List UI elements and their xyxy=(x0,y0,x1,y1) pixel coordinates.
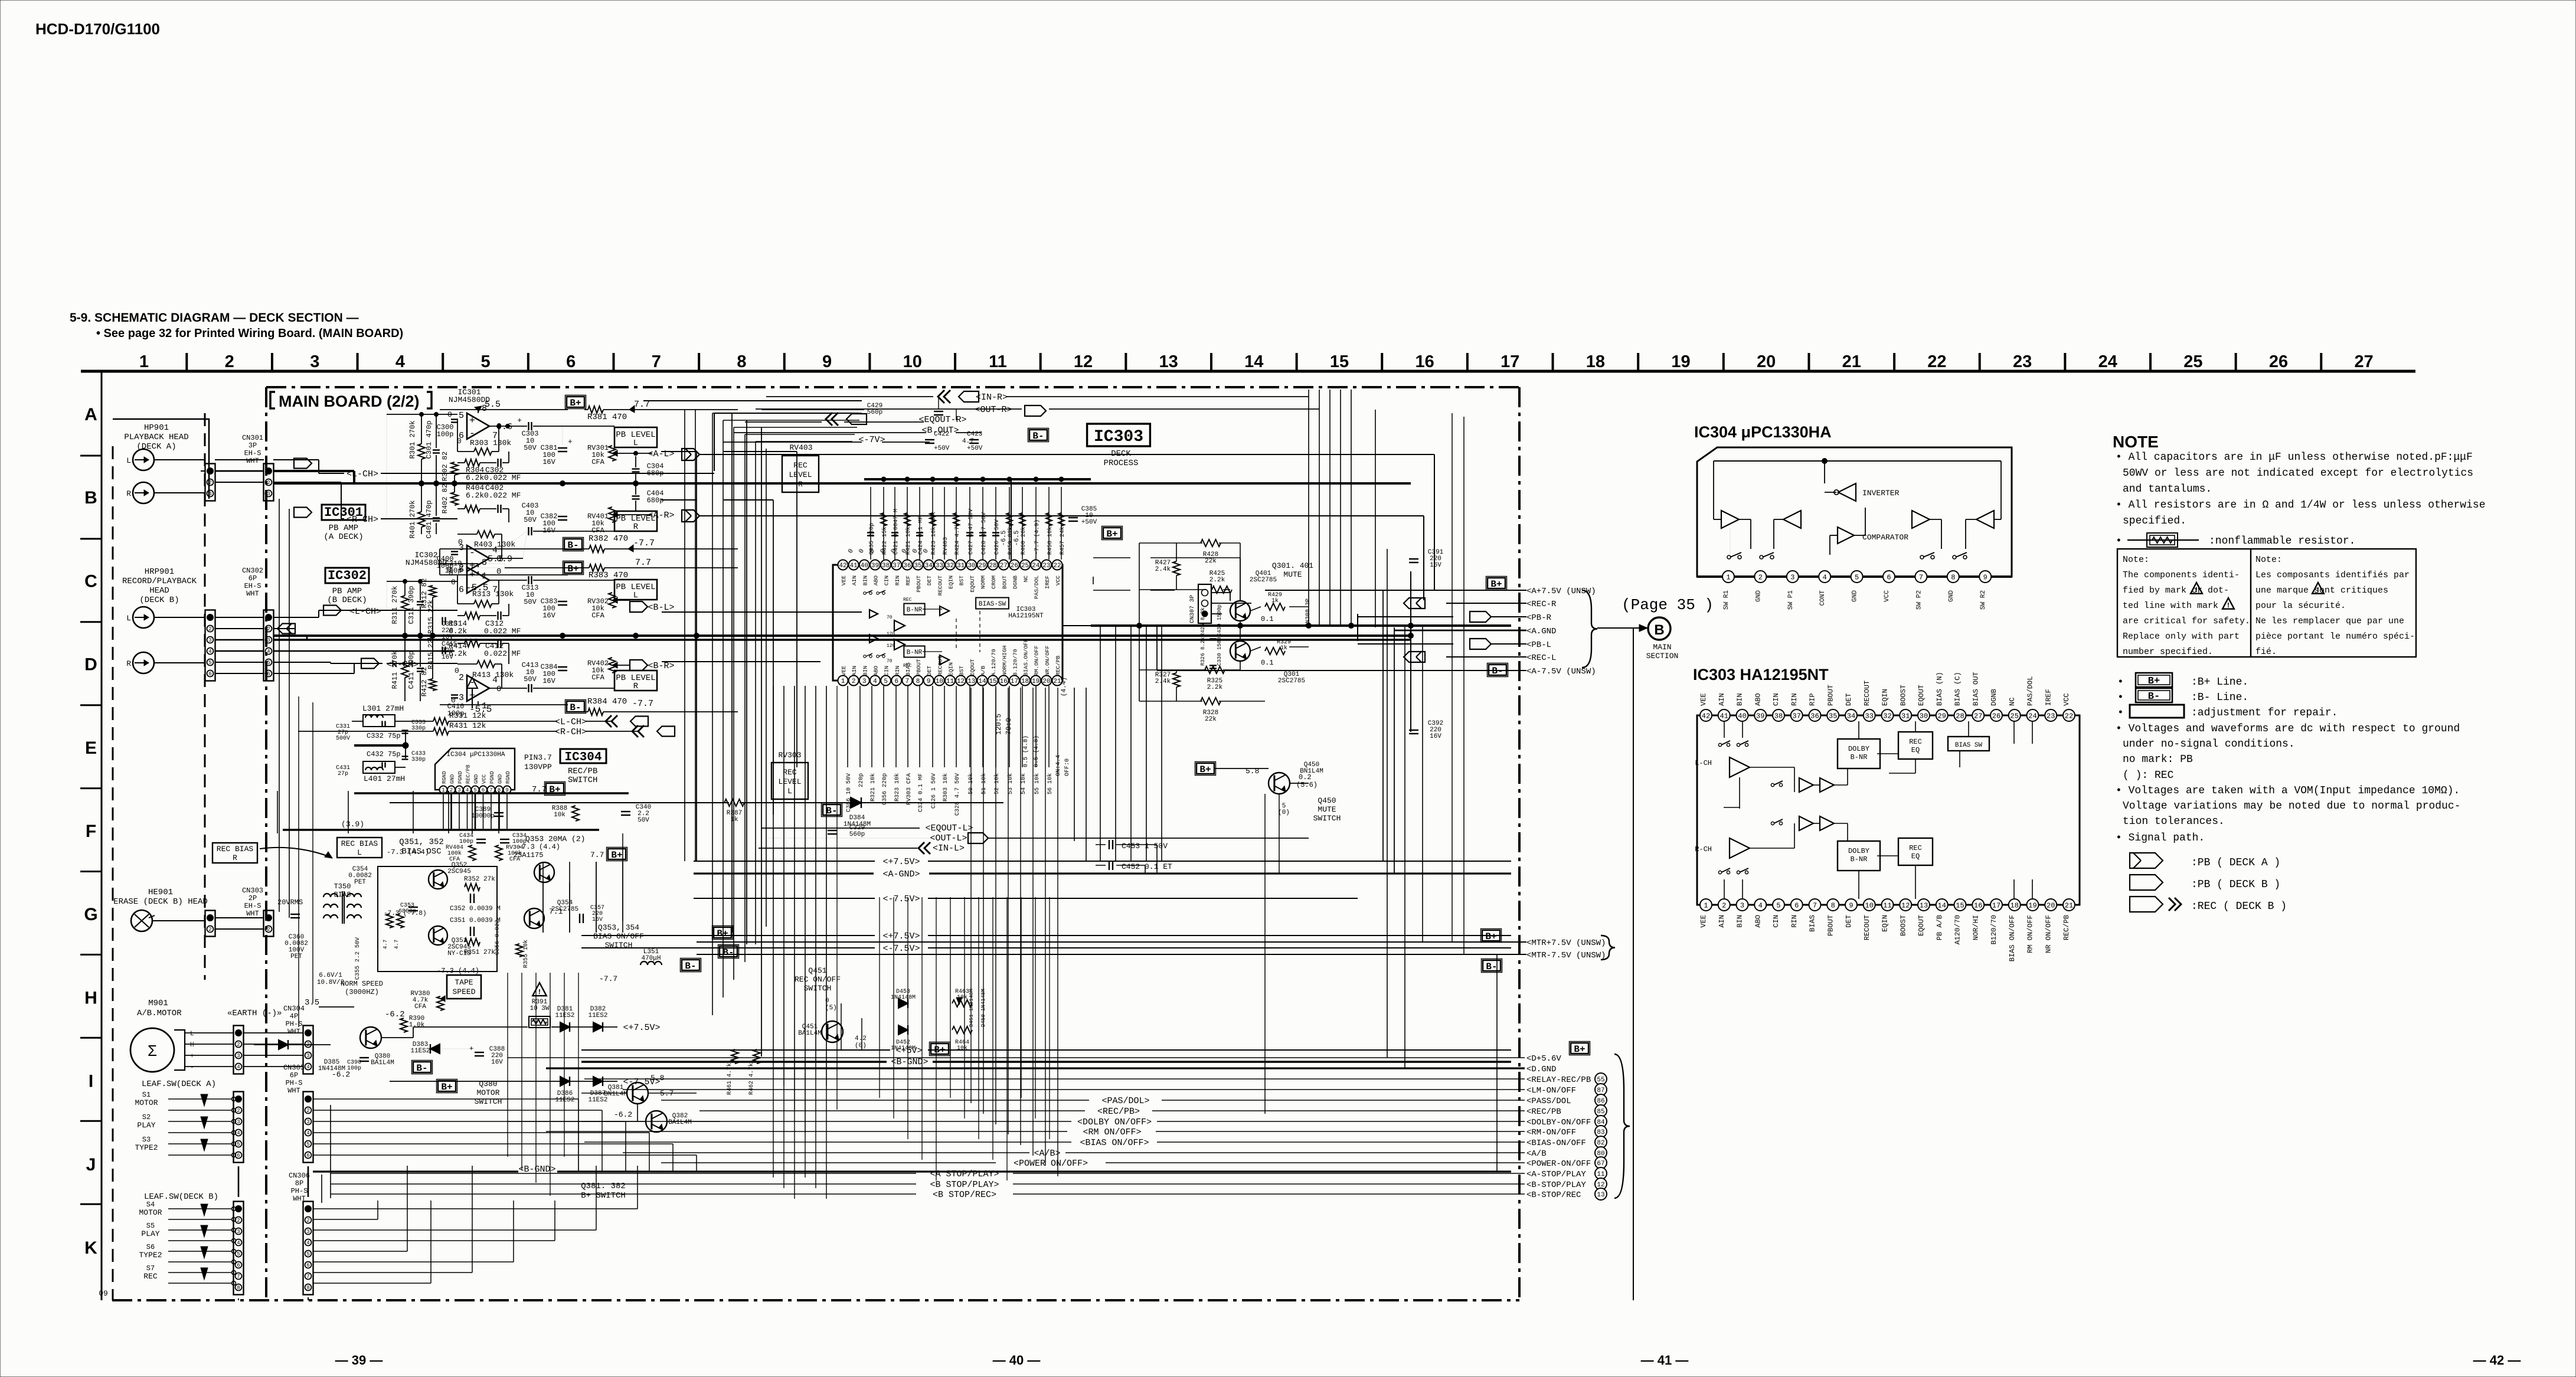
svg-text:31: 31 xyxy=(957,562,965,570)
svg-text:16V: 16V xyxy=(491,1059,503,1066)
svg-text:F: F xyxy=(86,822,96,841)
svg-text:IC301: IC301 xyxy=(324,505,363,520)
svg-text:70: 70 xyxy=(887,615,893,620)
svg-text:50V: 50V xyxy=(524,516,537,524)
rows C-D inner verticals xyxy=(1375,410,1376,627)
MTR brace xyxy=(1601,936,1615,960)
svg-text:C351 0.0039 M: C351 0.0039 M xyxy=(450,917,501,924)
svg-text:<A-STOP/PLAY: <A-STOP/PLAY xyxy=(1526,1170,1586,1179)
svg-text:70: 70 xyxy=(887,659,893,664)
svg-text:BST: BST xyxy=(959,575,965,586)
svg-text:5: 5 xyxy=(306,1251,309,1257)
transistor Q354 xyxy=(524,908,544,928)
svg-text:B+: B+ xyxy=(717,928,728,939)
svg-text:ON:4.4: ON:4.4 xyxy=(1055,755,1062,776)
C404 capacitor xyxy=(632,495,640,496)
svg-text:-7.7 (4.9): -7.7 (4.9) xyxy=(1034,519,1041,555)
svg-text:CN303: CN303 xyxy=(242,887,263,895)
svg-text:BOOST: BOOST xyxy=(1899,685,1907,706)
svg-text:18: 18 xyxy=(1021,678,1029,685)
svg-text:R382 470: R382 470 xyxy=(589,534,628,544)
svg-text:16V: 16V xyxy=(592,917,603,923)
svg-text:L: L xyxy=(126,456,131,465)
svg-text:D451 1N4148M: D451 1N4148M xyxy=(969,989,975,1027)
svg-text:REC: REC xyxy=(1909,844,1922,852)
svg-text:C386 10 50V: C386 10 50V xyxy=(846,773,852,812)
svg-text:16: 16 xyxy=(1415,352,1434,371)
svg-text:+: + xyxy=(517,416,522,425)
IC303 ref internal mid amps xyxy=(1799,778,1813,792)
mechanism dashed border mid xyxy=(204,413,206,980)
svg-text:L: L xyxy=(357,848,362,857)
svg-text:DET: DET xyxy=(926,575,933,586)
svg-text:WHT: WHT xyxy=(246,590,259,598)
IC304 ground bus lower xyxy=(283,829,599,830)
svg-text::PB ( DECK B ): :PB ( DECK B ) xyxy=(2191,879,2280,891)
svg-text:3: 3 xyxy=(208,491,211,497)
svg-text:BIAS OUT: BIAS OUT xyxy=(1972,672,1980,706)
deck A shield bold wire xyxy=(273,470,354,472)
C388 capacitor xyxy=(475,1052,484,1053)
svg-text:100p: 100p xyxy=(437,430,454,439)
svg-text:CN302: CN302 xyxy=(242,567,263,575)
svg-text:SW P2: SW P2 xyxy=(1915,590,1923,610)
junction dots on mute bus xyxy=(1137,623,1142,629)
svg-text:6: 6 xyxy=(237,1153,240,1159)
svg-text:CN306: CN306 xyxy=(289,1172,310,1180)
svg-text:42: 42 xyxy=(839,562,846,570)
IC301 B+ rail xyxy=(478,410,479,413)
bias to motor verticals xyxy=(542,862,544,933)
svg-text:BIN: BIN xyxy=(1736,915,1744,928)
diode D385 xyxy=(279,1040,288,1049)
svg-text:SECTION: SECTION xyxy=(1646,652,1679,660)
svg-text:0: 0 xyxy=(455,666,459,675)
svg-text:•: • xyxy=(2117,707,2124,719)
svg-text:OFF:0: OFF:0 xyxy=(1064,758,1071,776)
svg-text:B+: B+ xyxy=(1490,579,1502,590)
svg-text:34: 34 xyxy=(1847,712,1855,720)
svg-text:T350: T350 xyxy=(334,882,351,891)
IC303 ref DOLBY B-NR upper xyxy=(1838,739,1880,768)
svg-text:37: 37 xyxy=(893,562,900,570)
svg-text:no mark: PB: no mark: PB xyxy=(2123,754,2193,766)
D451 D450 rotated diodes xyxy=(956,997,962,1005)
warning triangle R391 xyxy=(532,983,546,996)
wires IC302 outputs to right xyxy=(662,611,862,613)
svg-text:C422: C422 xyxy=(934,431,949,438)
svg-text:B-: B- xyxy=(2148,691,2160,702)
svg-text:1: 1 xyxy=(841,678,845,685)
svg-text:22: 22 xyxy=(2065,712,2073,720)
svg-text:ABO: ABO xyxy=(1754,693,1762,706)
svg-text:22k: 22k xyxy=(1205,558,1217,565)
svg-text:IC304 μPC1330HA: IC304 μPC1330HA xyxy=(446,751,505,758)
svg-text:3: 3 xyxy=(1790,573,1794,581)
svg-text:36: 36 xyxy=(1810,712,1819,720)
IC304 boxed designator xyxy=(560,749,606,763)
svg-text:B120/70: B120/70 xyxy=(1990,915,1998,944)
REC BIAS L box xyxy=(337,838,382,858)
svg-text:2SC2785: 2SC2785 xyxy=(1278,678,1305,685)
svg-text:<A-R>: <A-R> xyxy=(648,511,674,521)
svg-text:CFA: CFA xyxy=(591,611,604,620)
svg-text:<B STOP/REC>: <B STOP/REC> xyxy=(933,1190,996,1200)
svg-text:11: 11 xyxy=(1597,1171,1605,1178)
svg-text:( ): REC: ( ): REC xyxy=(2123,770,2174,781)
main board dash-dot outline left xyxy=(265,387,267,1300)
svg-text:100p: 100p xyxy=(347,1065,361,1072)
svg-text:<A.GND: <A.GND xyxy=(1526,627,1556,636)
svg-text:MOTOR: MOTOR xyxy=(139,1208,162,1217)
svg-text:(5.6): (5.6) xyxy=(1296,781,1318,789)
svg-text:2: 2 xyxy=(459,673,464,683)
svg-text:NC: NC xyxy=(1023,575,1029,583)
C452 capacitor xyxy=(1109,861,1110,870)
B+ IC303 right xyxy=(1103,528,1121,538)
svg-text:4: 4 xyxy=(1823,573,1827,581)
svg-text:<A/B>: <A/B> xyxy=(1034,1149,1060,1159)
svg-text:C421 0.0047 M: C421 0.0047 M xyxy=(893,509,900,555)
svg-text:EQ: EQ xyxy=(1911,852,1920,861)
IC302-B out wire xyxy=(489,688,527,689)
svg-text:-7.7: -7.7 xyxy=(633,538,655,548)
svg-text:NORM: NORM xyxy=(980,575,986,589)
svg-text:REC: REC xyxy=(1909,738,1922,746)
wire row F long xyxy=(390,802,729,803)
svg-text:1k: 1k xyxy=(1271,597,1279,604)
svg-text:BIAS: BIAS xyxy=(1809,915,1817,932)
svg-text:2: 2 xyxy=(225,352,234,371)
svg-text:BA1L4M: BA1L4M xyxy=(371,1059,394,1067)
svg-text:<+5V>: <+5V> xyxy=(895,1046,922,1056)
signal path arrow PB deck B xyxy=(2130,875,2163,890)
diode D381 xyxy=(560,1022,570,1032)
rec/pb head R xyxy=(133,652,154,673)
L351 inductor xyxy=(640,961,662,965)
svg-text:L: L xyxy=(633,591,638,600)
svg-text:-7.3 (4.4): -7.3 (4.4) xyxy=(387,848,429,856)
svg-text:CONT: CONT xyxy=(1819,590,1826,606)
svg-text:REC/PB: REC/PB xyxy=(1055,655,1061,676)
svg-text:MUTE: MUTE xyxy=(1283,570,1302,579)
C391 capacitor xyxy=(1409,558,1418,560)
svg-text:16V: 16V xyxy=(542,458,555,466)
svg-text:PGND: PGND xyxy=(489,771,495,784)
mute bus bold xyxy=(1091,624,1511,627)
svg-text:<A-GND>: <A-GND> xyxy=(882,869,920,879)
svg-text:CFA: CFA xyxy=(591,458,604,466)
svg-text:RM.ON/OFF: RM.ON/OFF xyxy=(1034,645,1040,676)
svg-text:RECORD/PLAYBACK: RECORD/PLAYBACK xyxy=(122,577,197,586)
svg-text:18: 18 xyxy=(2011,901,2019,910)
svg-text:26: 26 xyxy=(1011,562,1018,570)
svg-text:HP901: HP901 xyxy=(144,423,169,433)
svg-text::B- Line.: :B- Line. xyxy=(2191,692,2248,704)
svg-text:BA1L4M: BA1L4M xyxy=(668,1119,692,1126)
svg-text:0.022 MF: 0.022 MF xyxy=(484,491,521,500)
C453 capacitor xyxy=(1109,840,1110,849)
svg-text:CIN: CIN xyxy=(1772,915,1780,928)
svg-text:S3: S3 xyxy=(142,1136,151,1144)
svg-text:PBOUT: PBOUT xyxy=(916,575,922,593)
svg-text:NJM4580DD: NJM4580DD xyxy=(406,558,447,567)
svg-text:L: L xyxy=(787,787,792,796)
svg-text:AIN: AIN xyxy=(1718,693,1726,706)
svg-text:REC: REC xyxy=(143,1272,158,1281)
svg-text:6: 6 xyxy=(208,671,211,677)
svg-text:•: • xyxy=(2116,535,2122,547)
RV303 REC LEVEL L box xyxy=(772,763,808,799)
svg-text:MOTOR: MOTOR xyxy=(476,1088,499,1097)
IC301-B out wire xyxy=(489,531,527,558)
PB LEVEL R box IC302 xyxy=(614,670,657,691)
svg-text:BIN: BIN xyxy=(862,666,868,676)
diode D383 xyxy=(430,1044,440,1054)
svg-text:11: 11 xyxy=(946,678,954,685)
svg-text:<OUT-L>: <OUT-L> xyxy=(930,833,967,843)
svg-text:VCC: VCC xyxy=(2062,693,2071,706)
svg-text:10k: 10k xyxy=(554,812,565,819)
svg-text:R383 470: R383 470 xyxy=(589,571,628,580)
svg-text:REC BIAS: REC BIAS xyxy=(217,845,254,853)
svg-text:fié.: fié. xyxy=(2255,647,2277,657)
svg-text:6: 6 xyxy=(306,1262,309,1268)
svg-text:8: 8 xyxy=(482,558,487,568)
svg-text:C427 0.47 50V: C427 0.47 50V xyxy=(968,509,975,555)
svg-text:220p: 220p xyxy=(858,773,865,787)
svg-text:R-CH: R-CH xyxy=(1695,845,1712,853)
svg-text:Note:: Note: xyxy=(2123,555,2149,565)
B-R arrow xyxy=(630,660,648,670)
R-CH row E wire xyxy=(298,731,433,732)
svg-text:AIN: AIN xyxy=(851,666,858,676)
svg-text:120:5: 120:5 xyxy=(995,714,1003,735)
ruler top line xyxy=(81,370,2415,373)
svg-text:GND: GND xyxy=(473,774,479,784)
svg-text:3: 3 xyxy=(237,1053,240,1059)
row B long wires to right xyxy=(738,454,1434,455)
note warning box xyxy=(2117,549,2416,657)
CN305 wires to right xyxy=(313,1098,578,1100)
svg-text:26: 26 xyxy=(2269,352,2288,371)
svg-text:CN301: CN301 xyxy=(242,434,263,442)
svg-text:R331 12k: R331 12k xyxy=(449,711,486,720)
svg-text:WHT: WHT xyxy=(246,910,259,918)
B-L arrow xyxy=(630,601,648,612)
IC304 ground bus upper xyxy=(354,792,629,794)
row E left links xyxy=(352,721,363,722)
svg-text:35: 35 xyxy=(1829,712,1837,720)
warning triangle marks english xyxy=(2191,583,2202,594)
svg-text:COMPARATOR: COMPARATOR xyxy=(1862,533,1908,542)
svg-text:13: 13 xyxy=(1597,1192,1604,1199)
resistor R353 R354 xyxy=(386,914,393,928)
svg-text:19: 19 xyxy=(1671,352,1690,371)
svg-text:BOOST: BOOST xyxy=(1899,915,1907,936)
svg-text:6: 6 xyxy=(237,1262,240,1268)
svg-text:2SC945: 2SC945 xyxy=(447,868,471,875)
center column verticals xyxy=(773,686,774,1062)
MTR B+ tag xyxy=(1482,930,1500,941)
svg-text:2.2k: 2.2k xyxy=(1209,577,1225,584)
svg-text:GND: GND xyxy=(450,774,456,784)
svg-text:K: K xyxy=(84,1238,97,1258)
svg-text:GND: GND xyxy=(1755,590,1762,602)
R355 label xyxy=(516,944,523,957)
svg-text:9: 9 xyxy=(927,678,931,685)
R461 R462 rotated xyxy=(731,1049,738,1064)
svg-text:PB AMP: PB AMP xyxy=(329,524,358,533)
svg-text:GND: GND xyxy=(1852,590,1859,602)
svg-text:•: • xyxy=(2117,676,2124,688)
svg-text:BOUT: BOUT xyxy=(1001,575,1008,589)
svg-text:29: 29 xyxy=(1938,712,1946,720)
svg-text:!: ! xyxy=(2226,601,2230,610)
svg-text:11ES2: 11ES2 xyxy=(555,1012,574,1019)
IC304 ref bottom bus xyxy=(1697,575,2012,578)
svg-text:6P: 6P xyxy=(290,1071,298,1080)
svg-text:(DECK A): (DECK A) xyxy=(136,442,176,452)
svg-text:<REC/PB: <REC/PB xyxy=(1526,1107,1561,1117)
capacitor C340 xyxy=(621,811,630,812)
svg-text:SWITCH: SWITCH xyxy=(1313,814,1341,823)
svg-text:-7.3 (4.4): -7.3 (4.4) xyxy=(518,843,560,851)
svg-text:• All resistors are in Ω and 1: • All resistors are in Ω and 1/4W or les… xyxy=(2116,499,2486,511)
op-amp IC301-A xyxy=(467,413,489,439)
deck B up arrow xyxy=(472,688,473,708)
svg-text:BIN: BIN xyxy=(1736,693,1744,706)
svg-text:5.8: 5.8 xyxy=(1245,767,1259,776)
svg-text:LEVEL: LEVEL xyxy=(789,470,812,479)
svg-text:5: 5 xyxy=(480,352,490,371)
svg-text:R426 8.2k: R426 8.2k xyxy=(1200,607,1206,636)
svg-text:pour la sécurité.: pour la sécurité. xyxy=(2255,601,2346,611)
svg-text:24: 24 xyxy=(2028,712,2036,720)
svg-text:8: 8 xyxy=(737,352,746,371)
svg-text:Q450: Q450 xyxy=(1318,796,1336,805)
B+ row G left xyxy=(714,927,731,938)
B- motor rail xyxy=(413,1062,431,1072)
IC303 ref R-CH amp xyxy=(1730,838,1750,858)
svg-text:(A DECK): (A DECK) xyxy=(323,532,363,542)
svg-text:RV303 CFA: RV303 CFA xyxy=(906,773,913,805)
svg-text:40: 40 xyxy=(1738,712,1746,720)
head B wires xyxy=(154,617,205,618)
svg-text:PH-S: PH-S xyxy=(291,1187,308,1195)
svg-text:RIN: RIN xyxy=(1790,915,1799,928)
svg-text:<-7V>: <-7V> xyxy=(858,435,885,445)
B- output xyxy=(1489,665,1506,675)
svg-text:DOLBY: DOLBY xyxy=(1848,745,1869,753)
svg-text:40: 40 xyxy=(861,562,868,570)
svg-text:4: 4 xyxy=(208,649,211,655)
svg-text:VEE: VEE xyxy=(1699,693,1708,706)
svg-text:REC/PB: REC/PB xyxy=(568,767,597,776)
svg-text:39: 39 xyxy=(871,562,879,570)
svg-text:4: 4 xyxy=(1758,901,1763,910)
svg-text:BIAS ON/OFF: BIAS ON/OFF xyxy=(593,932,644,941)
svg-text:EQIN: EQIN xyxy=(948,662,954,676)
R425 R428 connect xyxy=(1093,557,1130,558)
svg-text::adjustment for repair.: :adjustment for repair. xyxy=(2191,707,2338,719)
A-L arrow xyxy=(682,449,699,460)
svg-text:7: 7 xyxy=(905,678,910,685)
svg-text:R411 270k: R411 270k xyxy=(391,651,399,689)
svg-text:MUTE: MUTE xyxy=(1318,805,1336,814)
svg-text:27: 27 xyxy=(2355,352,2374,371)
svg-text:2: 2 xyxy=(267,480,270,486)
IC303 internal amp triangles xyxy=(894,620,905,631)
svg-text:1: 1 xyxy=(139,352,149,371)
svg-text:17: 17 xyxy=(1011,678,1018,685)
signal list brace xyxy=(1614,1054,1630,1198)
svg-text:8: 8 xyxy=(306,1285,309,1291)
transistor Q381 xyxy=(627,1082,648,1104)
svg-text:4: 4 xyxy=(237,1240,240,1246)
svg-text:24: 24 xyxy=(1032,562,1040,570)
svg-text:(Page 35 ): (Page 35 ) xyxy=(1622,596,1714,614)
svg-text:PAS/DOL: PAS/DOL xyxy=(1034,575,1040,599)
svg-text:TYPE2: TYPE2 xyxy=(139,1251,162,1260)
B- row F xyxy=(823,804,841,815)
svg-text:<REC-R: <REC-R xyxy=(1526,600,1557,609)
svg-text:B: B xyxy=(84,488,97,508)
junction dots A.GND deck B xyxy=(403,633,408,639)
mute transistor wires xyxy=(1250,607,1261,611)
transistor Q351 xyxy=(429,926,447,945)
svg-text:9: 9 xyxy=(1849,901,1853,910)
head A wires xyxy=(154,459,205,460)
CN303 connector strip B xyxy=(264,911,274,937)
bold A.GND bus deck A xyxy=(273,482,1411,485)
svg-text:0.022 MF: 0.022 MF xyxy=(484,627,521,636)
svg-text:C355 2.2 50V: C355 2.2 50V xyxy=(355,937,361,980)
svg-text:EQOUT: EQOUT xyxy=(969,659,976,676)
bias area verticals xyxy=(542,882,544,933)
deck A pb arrow L xyxy=(294,459,312,469)
svg-text:22: 22 xyxy=(1053,562,1061,570)
svg-text:680p: 680p xyxy=(647,469,664,477)
svg-text:6.2k: 6.2k xyxy=(466,473,484,482)
svg-text:5: 5 xyxy=(884,678,888,685)
IC303 ref top pins xyxy=(1700,709,1712,721)
svg-text:The components identi-: The components identi- xyxy=(2123,570,2240,580)
rec/pb head L xyxy=(133,607,154,628)
svg-text:13: 13 xyxy=(1159,352,1178,371)
svg-text:PH-S: PH-S xyxy=(286,1020,303,1028)
svg-text:EQOUT: EQOUT xyxy=(1917,685,1926,706)
svg-text:tion tolerances.: tion tolerances. xyxy=(2123,816,2225,827)
svg-text:R: R xyxy=(126,489,131,498)
svg-text:EQIN: EQIN xyxy=(1881,915,1889,932)
svg-text:IC303: IC303 xyxy=(1094,428,1143,446)
svg-text:24: 24 xyxy=(2098,352,2117,371)
svg-text:55 10k: 55 10k xyxy=(1034,773,1041,794)
svg-text:RV403: RV403 xyxy=(943,537,949,555)
svg-text:RV303: RV303 xyxy=(778,751,801,760)
svg-text:R403 130k: R403 130k xyxy=(474,540,515,549)
lower mesh verticals xyxy=(879,897,880,1098)
A-R arrow xyxy=(682,510,699,522)
svg-text:CIN: CIN xyxy=(884,575,890,586)
svg-text:<EQOUT-R>: <EQOUT-R> xyxy=(918,415,966,425)
svg-text:53 10k: 53 10k xyxy=(1007,773,1014,794)
svg-text:R: R xyxy=(633,682,639,691)
svg-text:36: 36 xyxy=(903,562,911,570)
svg-text:BST: BST xyxy=(959,666,965,676)
svg-text:<BIAS ON/OFF>: <BIAS ON/OFF> xyxy=(1080,1138,1149,1148)
